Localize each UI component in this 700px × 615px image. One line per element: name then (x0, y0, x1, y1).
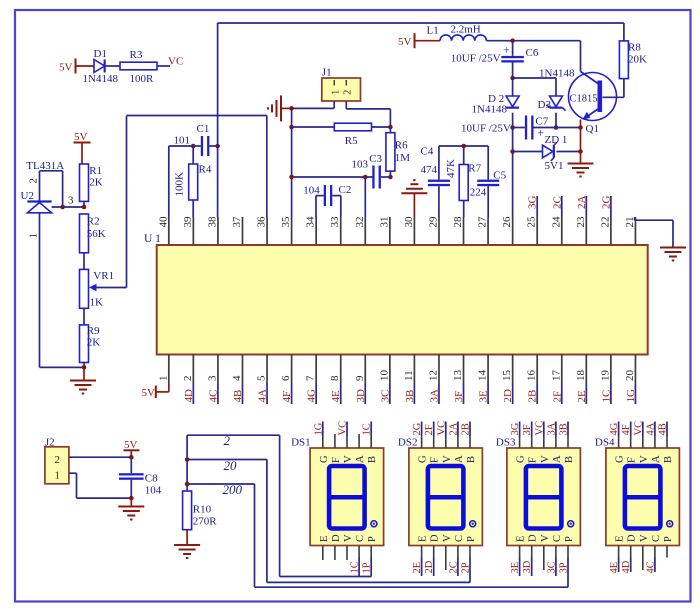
wire net 3G (DS3 G) (510, 422, 521, 449)
svg-text:3A: 3A (428, 389, 440, 403)
svg-text:G: G (615, 455, 626, 463)
junction (129, 496, 134, 501)
pin 35 (top) (280, 216, 292, 245)
DS1 bottom stub V (346, 546, 348, 560)
wire net 4G (DS4 G) (609, 422, 620, 449)
svg-text:D: D (430, 534, 441, 542)
power port 5V (at R1) (74, 131, 91, 143)
pin 13 (bottom) (452, 355, 464, 384)
junction (363, 175, 368, 180)
svg-text:5V: 5V (398, 36, 412, 48)
junction (289, 175, 294, 180)
DS2 bottom stub V (445, 546, 447, 570)
svg-text:47K: 47K (445, 159, 457, 178)
svg-text:2E: 2E (576, 390, 588, 403)
wire (83, 308, 85, 325)
svg-text:C1: C1 (197, 123, 210, 135)
svg-text:C: C (355, 535, 366, 542)
pin 33 (top) (329, 216, 341, 245)
svg-text:14: 14 (477, 370, 489, 382)
svg-text:2B: 2B (461, 423, 472, 435)
svg-text:3G: 3G (527, 196, 539, 210)
svg-text:4E: 4E (330, 390, 342, 403)
svg-text:3: 3 (68, 195, 74, 207)
svg-text:200: 200 (223, 482, 243, 497)
wire net 4B (pin 4) (232, 383, 244, 404)
pin 6 (bottom) (280, 355, 292, 384)
wire net 2G (DS2 G) (412, 422, 423, 449)
junction (461, 144, 466, 149)
wire net 2D (pin 15) (502, 383, 514, 404)
net 200 wire (187, 482, 568, 587)
svg-text:3D: 3D (522, 560, 533, 573)
svg-text:4C: 4C (207, 390, 219, 403)
svg-text:L1: L1 (427, 25, 439, 37)
svg-text:VR1: VR1 (93, 270, 114, 282)
svg-text:2K: 2K (89, 177, 103, 189)
wire net 3P (DS3 P) (559, 546, 570, 588)
pin 32 (top) (354, 217, 366, 245)
pin 21 (top) (624, 217, 636, 245)
7-segment display DS1 (291, 436, 384, 545)
svg-text:100K: 100K (174, 172, 186, 197)
capacitor C7 10UF/25V (461, 116, 581, 140)
junction (510, 125, 515, 130)
junction (510, 149, 515, 154)
svg-text:1: 1 (55, 470, 61, 482)
svg-text:15: 15 (501, 370, 513, 382)
wire net 1G (DS1 G) (313, 422, 324, 449)
resistor R3 100R (120, 49, 157, 85)
svg-text:Q1: Q1 (586, 123, 599, 135)
wire (105, 65, 120, 67)
junction (388, 125, 393, 130)
svg-text:1G: 1G (625, 389, 637, 403)
junction (510, 38, 515, 43)
junction (554, 125, 559, 130)
wire net 3C (pin 10) (379, 383, 391, 404)
wire net 2G (pin 22) (600, 196, 612, 218)
wire pin 32 (364, 177, 366, 217)
svg-text:5V: 5V (142, 387, 156, 399)
ground (below R10) (174, 544, 200, 546)
wire net 3A (pin 12) (428, 383, 440, 404)
DS4 bottom stub P (666, 546, 668, 558)
wire net 3E (DS3 E) (510, 546, 521, 576)
wire net 4E (DS4 E) (609, 546, 620, 574)
wire net 4C (DS4 C) (645, 546, 656, 574)
svg-text:DS1: DS1 (291, 436, 311, 448)
svg-text:20: 20 (224, 458, 238, 473)
svg-text:1P: 1P (362, 562, 373, 573)
svg-text:100R: 100R (130, 73, 155, 85)
svg-text:4B: 4B (658, 423, 669, 435)
svg-text:10UF /25V: 10UF /25V (461, 123, 511, 135)
wire J2 pin2 (69, 456, 131, 458)
svg-text:A: A (355, 455, 366, 463)
capacitor C6 10UF/25V (451, 41, 539, 78)
svg-text:4G: 4G (609, 422, 620, 435)
net 20 wire (187, 458, 470, 582)
svg-text:R5: R5 (345, 135, 358, 147)
wire net 4F (DS4 F) (621, 422, 632, 449)
svg-text:1N4148: 1N4148 (539, 68, 575, 80)
svg-text:3C: 3C (546, 561, 557, 573)
pin 30 (top) (403, 216, 415, 245)
svg-text:2: 2 (343, 90, 354, 95)
ground (below C8) (118, 498, 144, 519)
wire net 1C (pin 19) (600, 383, 612, 404)
pin 29 (top) (427, 216, 439, 245)
pin 19 (bottom) (599, 355, 611, 384)
wire net 2E (DS2 E) (412, 546, 423, 576)
svg-text:7: 7 (305, 375, 317, 381)
svg-text:R3: R3 (130, 49, 143, 61)
svg-text:B: B (564, 456, 575, 463)
zener diode ZD1 5V1 (513, 134, 581, 172)
svg-text:2G: 2G (412, 422, 423, 435)
svg-text:37: 37 (231, 216, 243, 228)
junction (82, 205, 87, 210)
wire node 3 (52, 195, 84, 208)
wire (512, 128, 514, 152)
potentiometer VR1 1K (80, 269, 115, 308)
wire net 2B (DS2 B) (461, 422, 472, 449)
diode D1 1N4148 (83, 48, 119, 85)
svg-text:DS3: DS3 (496, 436, 516, 448)
svg-text:12: 12 (427, 370, 439, 381)
wire net 2F (DS2 F) (424, 422, 435, 449)
svg-text:D: D (331, 534, 342, 542)
svg-text:4D: 4D (621, 560, 632, 573)
wire net 1C (DS1 C) (350, 546, 361, 577)
wire anode pin 1 (40, 213, 85, 368)
pin 26 (top) (501, 216, 513, 245)
svg-text:5V: 5V (74, 131, 88, 143)
svg-text:V: V (639, 534, 650, 542)
svg-text:1C: 1C (600, 390, 612, 403)
svg-text:V: V (442, 455, 453, 463)
svg-text:2G: 2G (600, 196, 612, 210)
svg-text:25: 25 (526, 216, 538, 228)
pin 24 (top) (550, 216, 562, 245)
svg-text:R7: R7 (468, 163, 481, 175)
svg-text:2.2mH: 2.2mH (451, 24, 481, 36)
svg-text:8: 8 (329, 375, 341, 381)
svg-text:3A: 3A (546, 422, 557, 435)
capacitor C8 104 (119, 457, 162, 498)
wire J1 pin2 (346, 101, 390, 127)
wire net 3G (pin 25) (527, 196, 539, 218)
svg-text:2P: 2P (461, 562, 472, 573)
svg-text:U2: U2 (21, 190, 34, 202)
power port 5V (at L1) (398, 33, 415, 48)
7-segment display DS2 (398, 436, 483, 545)
svg-text:4F: 4F (281, 391, 293, 403)
shunt reference U2 TL431A (21, 160, 65, 239)
7-segment display DS4 (595, 436, 680, 545)
wire net 4A (pin 5) (257, 383, 269, 404)
svg-text:A: A (552, 455, 563, 463)
wire net 1C (DS1 B) (362, 422, 373, 449)
svg-text:R1: R1 (89, 165, 102, 177)
svg-text:17: 17 (550, 370, 562, 382)
svg-text:18: 18 (575, 370, 587, 382)
pin 7 (bottom) (305, 355, 317, 384)
wire (83, 363, 85, 368)
wire node (pin 35 net) (291, 108, 293, 217)
svg-text:1C: 1C (350, 561, 361, 573)
pin 23 (top) (575, 216, 587, 245)
svg-text:E: E (516, 536, 527, 542)
svg-text:2K: 2K (87, 337, 101, 349)
svg-text:19: 19 (599, 370, 611, 382)
svg-text:26: 26 (501, 216, 513, 228)
svg-text:3F: 3F (453, 391, 465, 403)
junction (289, 125, 294, 130)
svg-text:2E: 2E (412, 562, 423, 574)
DS4 bottom stub V (642, 546, 644, 570)
wire pin 21 to ground (635, 217, 673, 248)
capacitor C1 101 (174, 123, 218, 156)
svg-text:1K: 1K (90, 297, 104, 309)
inductor L1 2.2mH (427, 24, 487, 41)
resistor R10 270R (183, 491, 218, 545)
svg-text:C1815: C1815 (570, 94, 598, 105)
svg-text:E: E (615, 536, 626, 542)
wire net 4B (DS4 B) (658, 422, 669, 449)
wire net 2F (pin 17) (551, 383, 563, 404)
svg-text:33: 33 (329, 216, 341, 228)
svg-text:5V: 5V (124, 439, 138, 451)
wire (83, 201, 85, 207)
svg-text:3B: 3B (404, 390, 416, 403)
svg-text:V: V (540, 534, 551, 542)
wire net 2C (pin 24) (551, 196, 563, 217)
DS3 bottom stub V (543, 546, 545, 570)
svg-text:3C: 3C (379, 390, 391, 403)
svg-text:24: 24 (550, 216, 562, 228)
svg-text:4: 4 (231, 375, 243, 381)
svg-text:3B: 3B (559, 423, 570, 435)
svg-text:P: P (564, 536, 575, 542)
svg-text:VC: VC (338, 421, 349, 436)
svg-text:1: 1 (157, 376, 169, 382)
ground (70, 367, 96, 393)
resistor R4 100K (174, 146, 212, 217)
svg-text:1: 1 (28, 233, 40, 239)
DS1 bottom stub D (334, 546, 336, 560)
ground (below Q1) (568, 163, 594, 165)
svg-text:4B: 4B (232, 390, 244, 403)
svg-text:2C: 2C (448, 561, 459, 573)
svg-text:V: V (639, 455, 650, 463)
svg-text:35: 35 (280, 216, 292, 228)
wire lower net (292, 176, 374, 178)
wire net 4G (pin 7) (306, 383, 318, 404)
pin 4 (bottom) (231, 355, 243, 384)
wire J1 pin1 (292, 101, 335, 108)
svg-text:4A: 4A (645, 422, 656, 435)
resistor R5 (292, 123, 391, 147)
pin 31 (top) (378, 217, 390, 245)
wire net 2A (pin 23) (576, 196, 588, 218)
wire to D3 (513, 78, 556, 96)
DS1 top stub A (358, 434, 360, 448)
svg-text:3E: 3E (510, 562, 521, 574)
junction (289, 106, 294, 111)
wire net 3E (pin 14) (478, 383, 490, 404)
svg-text:1C: 1C (362, 423, 373, 435)
wire net 3A (DS3 A) (546, 422, 557, 449)
pin 8 (bottom) (329, 355, 341, 384)
wire pin 26 (512, 152, 514, 218)
svg-text:R8: R8 (628, 42, 641, 54)
svg-text:3: 3 (206, 375, 218, 381)
power port 5V (at D1) (59, 59, 76, 74)
svg-text:G: G (418, 455, 429, 463)
net 2 wire (187, 433, 371, 577)
svg-text:20: 20 (624, 370, 636, 382)
svg-text:DS4: DS4 (595, 436, 615, 448)
svg-text:3F: 3F (522, 424, 533, 435)
svg-text:56K: 56K (87, 228, 106, 240)
svg-text:C: C (552, 535, 563, 542)
svg-text:3D: 3D (355, 389, 367, 403)
resistor R9 2K (80, 325, 101, 363)
junction (578, 149, 583, 154)
svg-text:1: 1 (331, 90, 342, 95)
wire net 4D (DS4 D) (621, 546, 632, 574)
diode D2 1N4148 (472, 78, 520, 128)
svg-text:6: 6 (280, 375, 292, 381)
svg-text:104: 104 (145, 485, 162, 497)
svg-text:11: 11 (403, 370, 415, 381)
ground (pin 21) (660, 247, 686, 249)
svg-text:2D: 2D (502, 389, 514, 403)
svg-text:104: 104 (303, 185, 320, 197)
capacitor C4 474 (421, 146, 450, 218)
svg-text:C2: C2 (339, 184, 352, 196)
pin 1 (bottom) (157, 355, 169, 384)
svg-text:22: 22 (599, 217, 611, 228)
svg-text:R10: R10 (193, 504, 212, 516)
svg-text:R2: R2 (87, 216, 100, 228)
pin 25 (top) (526, 216, 538, 245)
svg-text:32: 32 (354, 217, 366, 228)
wire net 3D (DS3 D) (522, 546, 533, 576)
pin 2 (bottom) (182, 355, 194, 384)
svg-text:F: F (627, 457, 638, 463)
pin 10 (bottom) (378, 355, 390, 384)
wire net 2C (DS2 C) (448, 546, 459, 576)
svg-text:2A: 2A (576, 196, 588, 210)
DS1 bottom stub E (322, 546, 324, 560)
wire net 3F (pin 13) (453, 383, 465, 404)
svg-text:J2: J2 (45, 436, 55, 448)
svg-text:34: 34 (305, 216, 317, 228)
pin 39 (top) (182, 216, 194, 245)
ground (at J1) (268, 95, 292, 121)
svg-text:4A: 4A (257, 389, 269, 403)
wire VR1 wiper to pin 36 (96, 116, 267, 288)
connector J2 (45, 436, 69, 484)
pin 28 (top) (452, 216, 464, 245)
svg-text:VC: VC (436, 421, 447, 436)
svg-text:2: 2 (182, 376, 194, 382)
svg-text:2D: 2D (424, 560, 435, 573)
svg-text:101: 101 (174, 135, 191, 147)
svg-text:R4: R4 (199, 164, 212, 176)
svg-text:U 1: U 1 (144, 233, 161, 245)
svg-text:1N4148: 1N4148 (472, 104, 508, 116)
svg-text:R6: R6 (395, 140, 408, 152)
pin 11 (bottom) (403, 355, 415, 384)
7-segment display DS3 (496, 436, 581, 545)
wire net 3B (pin 11) (404, 383, 416, 404)
resistor R8 20K (603, 41, 648, 97)
svg-text:13: 13 (452, 370, 464, 382)
svg-text:23: 23 (575, 216, 587, 228)
svg-text:C6: C6 (526, 47, 539, 59)
svg-text:C8: C8 (145, 473, 158, 485)
junction (129, 455, 134, 460)
junction (388, 175, 393, 180)
wire net 4A (DS4 A) (645, 422, 656, 449)
pin 16 (bottom) (526, 355, 538, 384)
DS1 top stub F (334, 434, 336, 448)
capacitor C2 104 (303, 184, 351, 217)
svg-text:VC: VC (168, 56, 183, 68)
svg-text:10: 10 (378, 370, 390, 382)
svg-text:270R: 270R (193, 516, 218, 528)
pin 37 (top) (231, 216, 243, 245)
svg-text:2C: 2C (551, 196, 563, 209)
svg-text:+: + (503, 43, 510, 57)
pin 18 (bottom) (575, 355, 587, 384)
svg-text:C4: C4 (421, 146, 434, 158)
wire net 4D (pin 2) (183, 383, 195, 404)
svg-text:4C: 4C (645, 561, 656, 573)
wire net 4F (pin 6) (281, 383, 293, 404)
svg-text:4E: 4E (609, 562, 620, 574)
svg-text:F: F (331, 457, 342, 463)
svg-text:40: 40 (157, 216, 169, 228)
wire rail to Q1 collector (486, 41, 580, 72)
svg-text:3E: 3E (478, 390, 490, 403)
svg-text:VC: VC (534, 421, 545, 436)
connector J1 (322, 67, 361, 102)
svg-text:F: F (528, 457, 539, 463)
svg-text:9: 9 (354, 375, 366, 381)
svg-text:28: 28 (452, 216, 464, 228)
wire net VC (DS3 V) (534, 421, 545, 448)
pin 27 (top) (477, 216, 489, 245)
pin 22 (top) (599, 217, 611, 245)
svg-text:G: G (516, 455, 527, 463)
pin 5 (bottom) (256, 355, 268, 384)
pin 9 (bottom) (354, 355, 366, 384)
wire emitter (580, 120, 582, 164)
svg-text:2: 2 (55, 454, 61, 466)
svg-text:B: B (367, 456, 378, 463)
power port 5V (pin 1) (142, 383, 169, 399)
junction (191, 144, 196, 149)
junction (215, 144, 220, 149)
wire net 2P (DS2 P) (461, 546, 472, 583)
resistor R1 2K (80, 164, 103, 201)
svg-text:C5: C5 (493, 170, 506, 182)
